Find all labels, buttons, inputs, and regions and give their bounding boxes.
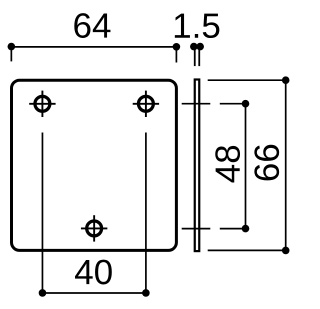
dimension 66 line with connectors and dots xyxy=(208,76,290,254)
dimension 40 line with end dots xyxy=(39,289,150,297)
dimension 40 label xyxy=(75,260,112,285)
hole bottom-center crosshair xyxy=(81,215,107,241)
dimension 64 label xyxy=(74,13,110,38)
dimension 66 label (rotated) xyxy=(254,145,279,181)
dimension 48 line with connectors and dots xyxy=(220,100,250,233)
dimension 1.5 dots and extension ticks xyxy=(190,43,204,66)
dimension 40 extension lines from top holes xyxy=(42,133,145,294)
plate front view outline xyxy=(12,80,177,250)
dimension 48 label (rotated) xyxy=(215,146,240,183)
side view thin plate xyxy=(195,80,200,252)
hole top-left crosshair xyxy=(29,91,55,117)
side view hole centerline ticks xyxy=(182,104,211,229)
hole top-right crosshair xyxy=(133,91,159,117)
dimension 1.5 label xyxy=(175,14,220,38)
dimension 64 line with end dots xyxy=(8,43,181,63)
